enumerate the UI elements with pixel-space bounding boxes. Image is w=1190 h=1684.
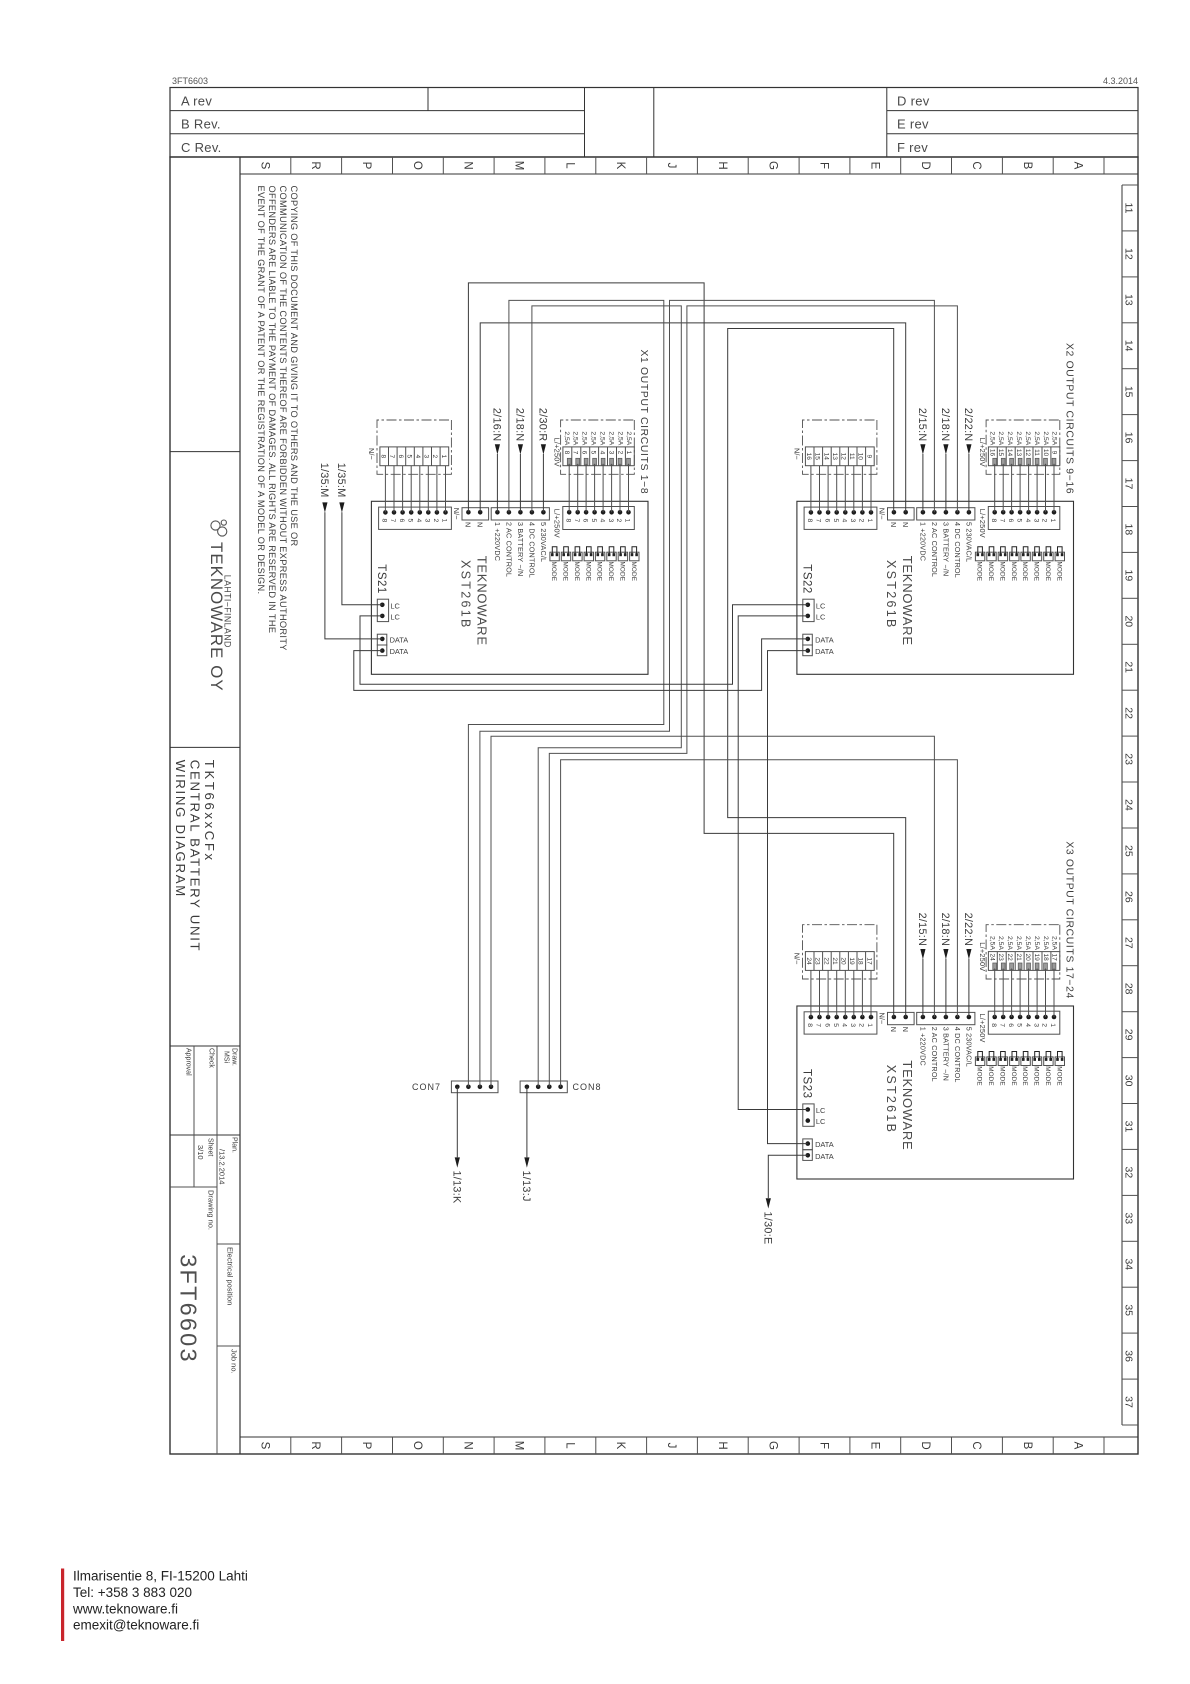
module TS22 fuse terminal strip frame (dash-dot) [986,420,1060,474]
right grid reference band (letters A-S) [240,1436,1138,1438]
svg-text:7: 7 [815,1023,822,1027]
left grid reference band (letters A-S) [240,173,1138,175]
svg-text:2,5A: 2,5A [599,431,606,445]
svg-text:XST261B: XST261B [884,1065,898,1135]
svg-text:3: 3 [424,519,431,523]
svg-text:7: 7 [389,519,396,523]
module TS23 MODE jumper 3 [1032,1057,1041,1066]
svg-text:LC: LC [390,612,400,621]
svg-text:Check: Check [208,1048,215,1068]
svg-text:1/13:K: 1/13:K [450,1171,462,1205]
net arrow 2/18:N to TS21 pin 3 [519,454,521,512]
svg-text:MODE: MODE [987,562,994,582]
wire net DATA chain TS22 to TS23 [768,651,808,1144]
svg-text:MODE: MODE [976,1066,983,1086]
net arrow 1/13:J from CON8 pin1 [526,1087,528,1158]
wire fuse 5 to TS21 output 5 [594,464,596,513]
svg-text:P: P [360,1442,372,1450]
wire connector 6 to TS21 return 6 [402,466,404,513]
svg-text:N/−: N/− [878,1013,887,1025]
module TS21 MODE jumper 2 [618,552,627,561]
svg-text:LC: LC [816,601,826,610]
svg-text:O: O [411,161,423,170]
module TS23 output terminal box L/+250V pins 1-8 [988,1011,1060,1034]
module TS22 return terminal box pins 1-8 [804,507,877,529]
svg-text:2 AC CONTROL: 2 AC CONTROL [504,522,513,577]
svg-text:F: F [818,162,830,169]
teknoware gear logo [211,520,227,536]
svg-text:2: 2 [616,451,623,455]
svg-text:18: 18 [1042,954,1049,962]
svg-text:33: 33 [1123,1212,1135,1224]
svg-text:LC: LC [390,601,400,610]
svg-text:F: F [818,1442,830,1449]
svg-text:N/−: N/− [793,448,802,460]
svg-text:CON7: CON7 [412,1082,441,1092]
connector CON8 [520,1081,567,1093]
module TS23 input terminal box pins 1-5 [917,1012,975,1024]
svg-text:N: N [462,161,474,169]
svg-text:13: 13 [1015,449,1022,457]
wire connector 20 to TS23 return 4 [844,970,846,1017]
svg-text:4: 4 [841,1023,848,1027]
svg-text:2,5A: 2,5A [1006,431,1013,445]
svg-text:26: 26 [1123,891,1135,903]
svg-text:S: S [258,1442,270,1450]
svg-text:4: 4 [415,519,422,523]
svg-text:2,5A: 2,5A [997,431,1004,445]
svg-text:Approval: Approval [185,1048,192,1076]
svg-text:L/+250V: L/+250V [978,438,987,467]
module TS21 MODE jumper 8 [550,552,559,561]
svg-text:G: G [767,161,779,170]
wire fuse 4 to TS21 output 4 [602,464,604,513]
module TS21 fuse 4 2,5A [601,458,605,465]
svg-text:1: 1 [624,519,631,523]
svg-text:3: 3 [423,454,430,458]
svg-text:3/10: 3/10 [196,1145,205,1160]
svg-text:N: N [901,1027,910,1032]
svg-text:CON8: CON8 [573,1082,602,1092]
svg-text:3: 3 [849,519,856,523]
svg-text:LC: LC [816,1117,826,1126]
wire fuse 24 to TS23 output 8 [994,969,996,1018]
wire connector 2 to TS21 return 2 [436,466,438,513]
module TS22 XST261B outline [797,501,1074,674]
module TS21 fuse 6 2,5A [584,458,588,465]
wire connector 12 to TS22 return 4 [844,466,846,513]
svg-text:15: 15 [1123,386,1135,398]
svg-text:4: 4 [1024,1023,1031,1027]
svg-text:1: 1 [441,519,448,523]
net arrow 2/16:N to TS21 pin 1 [496,454,498,512]
svg-text:5: 5 [590,451,597,455]
svg-text:Sheet: Sheet [207,1138,214,1156]
module TS22 fuse 9 2,5A [1052,458,1056,465]
module TS23 return terminal box pins 1-8 [804,1012,877,1034]
net arrow 1/35:M to TS21 LC [342,512,382,605]
svg-text:2: 2 [1041,1023,1048,1027]
wire connector 9 to TS22 return 1 [870,466,872,513]
svg-text:TS21: TS21 [375,564,387,594]
svg-text:2,5A: 2,5A [1015,431,1022,445]
svg-text:CENTRAL BATTERY UNIT: CENTRAL BATTERY UNIT [188,760,203,953]
svg-text:8: 8 [381,519,388,523]
module TS22 MODE jumper 8 [975,552,984,561]
module TS22 MODE jumper 3 [1032,552,1041,561]
svg-text:5 230VAC/L: 5 230VAC/L [964,522,973,562]
module TS21 MODE jumper 4 [595,552,604,561]
module TS23 LC connector [803,1104,814,1126]
svg-text:DATA: DATA [815,1140,834,1149]
svg-text:D rev: D rev [897,94,930,109]
svg-text:15: 15 [814,453,821,461]
svg-text:L/+250V: L/+250V [978,1014,987,1043]
module TS21 return terminal box pins 1-8 [379,507,452,529]
svg-text:emexit@teknoware.fi: emexit@teknoware.fi [73,1618,199,1633]
svg-text:N: N [464,522,473,527]
svg-text:1/13:J: 1/13:J [520,1171,532,1202]
svg-text:H: H [716,1441,728,1449]
svg-text:B: B [1021,162,1033,170]
wire connector 24 to TS23 return 8 [810,970,812,1017]
module TS23 MODE jumper 4 [1021,1057,1030,1066]
module TS23 fuse terminal strip frame (dash-dot) [986,925,1060,979]
svg-text:9: 9 [1051,451,1058,455]
wire fuse 6 to TS21 output 6 [585,464,587,513]
svg-text:K: K [614,162,626,170]
svg-text:O: O [411,1441,423,1450]
svg-text:TEKNOWARE: TEKNOWARE [475,556,490,646]
svg-text:2/22:N: 2/22:N [962,408,974,442]
module TS21 fuse 5 2,5A [593,458,597,465]
module TS22 fuse 16 2,5A [993,458,997,465]
svg-text:MODE: MODE [562,562,569,582]
module TS21 LC connector [377,599,388,621]
module TS21 DATA connector [377,634,387,645]
wire connector 21 to TS23 return 5 [836,970,838,1017]
net arrow 2/30:R to TS21 pin 5 [542,454,544,512]
svg-text:16: 16 [1123,432,1135,444]
svg-text:1: 1 [625,451,632,455]
wire fuse 16 to TS22 output 8 [994,464,996,513]
svg-text:MODE: MODE [550,562,557,582]
svg-text:19: 19 [848,957,855,965]
svg-text:19: 19 [1123,570,1135,582]
wire fuse 22 to TS23 output 6 [1011,969,1013,1018]
module TS23 MODE jumper 8 [975,1057,984,1066]
svg-text:2,5A: 2,5A [572,431,579,445]
svg-text:MODE: MODE [596,562,603,582]
svg-text:1/30:E: 1/30:E [761,1212,773,1245]
svg-text:MODE: MODE [987,1066,994,1086]
svg-text:OFFENDERS ARE LIABLE TO THE PA: OFFENDERS ARE LIABLE TO THE PAYMENT OF D… [267,186,277,634]
svg-text:8: 8 [380,454,387,458]
svg-text:A rev: A rev [181,94,212,109]
module TS23 fuse strip cells [988,952,1059,971]
svg-text:MODE: MODE [1010,562,1017,582]
svg-text:MODE: MODE [1044,562,1051,582]
svg-text:5: 5 [832,1023,839,1027]
svg-text:4: 4 [841,519,848,523]
module TS23 output connector strip frame (dash-dot) [803,925,877,979]
svg-text:C: C [970,161,982,169]
module TS22 fuse 11 2,5A [1035,458,1039,465]
wire connector 8 to TS21 return 8 [384,466,386,513]
svg-text:MODE: MODE [1033,1066,1040,1086]
svg-text:11: 11 [848,453,855,460]
svg-text:R: R [309,161,321,169]
module TS21 output terminal box L/+250V pins 1-8 [563,507,635,530]
module TS22 LC connector [803,599,814,621]
wire connector 18 to TS23 return 2 [861,970,863,1017]
svg-text:www.teknoware.fi: www.teknoware.fi [72,1601,178,1616]
svg-text:N/−: N/− [367,448,376,460]
module TS23 XST261B outline [797,1006,1074,1179]
svg-text:1 +220VDC: 1 +220VDC [918,1027,927,1066]
svg-text:6: 6 [397,454,404,458]
wire fuse 10 to TS22 output 2 [1045,464,1047,513]
wire fuse 13 to TS22 output 5 [1019,464,1021,513]
svg-text:COMMUNICATION OF THE CONTENTS: COMMUNICATION OF THE CONTENTS THEREOF AR… [278,186,288,651]
svg-text:3: 3 [849,1023,856,1027]
svg-text:Job no.: Job no. [230,1349,239,1374]
svg-text:2/15:N: 2/15:N [916,913,928,947]
svg-text:5: 5 [1015,1023,1022,1027]
wire connector 7 to TS21 return 7 [393,466,395,513]
net arrow 2/22:N to TS22 pin 5 [968,454,970,512]
svg-text:22: 22 [1006,954,1013,962]
svg-text:11: 11 [1123,203,1135,214]
wire fuse 19 to TS23 output 3 [1036,969,1038,1018]
net arrow 2/22:N to TS23 pin 5 [968,959,970,1017]
svg-text:17: 17 [1051,954,1058,962]
svg-text:MODE: MODE [999,1066,1006,1086]
svg-text:9: 9 [865,454,872,458]
svg-text:20: 20 [840,957,847,965]
module TS23 MODE jumper 1 [1055,1057,1064,1066]
svg-text:3: 3 [607,519,614,523]
svg-text:5: 5 [590,519,597,523]
svg-text:Plan.: Plan. [231,1137,238,1153]
svg-text:C Rev.: C Rev. [181,140,222,155]
svg-text:5 230VAC/L: 5 230VAC/L [539,522,548,562]
svg-text:MODE: MODE [1010,1066,1017,1086]
wire net N TS21 to TS22 (N2 chain) [480,323,906,512]
svg-text:2: 2 [1041,519,1048,523]
module TS21 fuse 1 2,5A [627,458,631,465]
module TS21 XST261B outline [371,501,648,674]
wire fuse 1 to TS21 output 1 [628,464,630,513]
svg-text:J: J [665,1443,677,1449]
svg-text:MODE: MODE [607,562,614,582]
wire connector 3 to TS21 return 3 [427,466,429,513]
svg-text:2,5A: 2,5A [1024,431,1031,445]
module TS23 fuse 17 2,5A [1052,963,1056,970]
svg-text:2,5A: 2,5A [1051,431,1058,445]
svg-text:3 BATTERY −/N: 3 BATTERY −/N [941,522,950,576]
svg-text:MODE: MODE [1021,562,1028,582]
svg-text:24: 24 [805,957,812,965]
svg-text:31: 31 [1123,1121,1135,1133]
svg-text:2,5A: 2,5A [590,431,597,445]
module TS21 MODE jumper 5 [584,552,593,561]
net arrow 2/18:N to TS22 pin 3 [945,454,947,512]
svg-text:2: 2 [615,519,622,523]
svg-text:16: 16 [805,453,812,461]
module TS21 output connector cells [380,447,449,466]
svg-text:3: 3 [1032,1023,1039,1027]
svg-text:6: 6 [823,519,830,523]
svg-text:22: 22 [1123,707,1135,719]
module TS22 MODE jumper 5 [1010,552,1019,561]
svg-text:TEKNOWARE: TEKNOWARE [900,556,915,646]
svg-text:5 230VAC/L: 5 230VAC/L [964,1027,973,1067]
net arrow 2/15:N to TS22 pin 1 [922,454,924,512]
wire fuse 9 to TS22 output 1 [1053,464,1055,513]
module TS21 fuse 8 2,5A [567,458,571,465]
module TS23 MODE jumper 2 [1044,1057,1053,1066]
module TS21 fuse 7 2,5A [576,458,580,465]
svg-text:MODE: MODE [1021,1066,1028,1086]
wire connector 22 to TS23 return 6 [827,970,829,1017]
module TS22 output connector cells [805,447,874,466]
svg-text:MSi: MSi [223,1051,230,1064]
module TS22 fuse 14 2,5A [1010,458,1014,465]
svg-text:LC: LC [816,612,826,621]
svg-text:DATA: DATA [390,635,409,644]
svg-text:4: 4 [599,451,606,455]
svg-text:3FT6603: 3FT6603 [176,1254,202,1363]
wire fuse 14 to TS22 output 6 [1011,464,1013,513]
svg-text:36: 36 [1123,1350,1135,1362]
svg-text:4: 4 [598,519,605,523]
svg-text:7: 7 [388,454,395,458]
svg-text:C: C [970,1441,982,1449]
wire net AC control TS21 to CON7 pin2 [468,300,663,1086]
wire connector 10 to TS22 return 2 [861,466,863,513]
svg-text:1: 1 [866,1023,873,1027]
svg-text:1/35:M: 1/35:M [335,463,347,498]
svg-text:2,5A: 2,5A [1015,936,1022,950]
svg-text:2,5A: 2,5A [1006,936,1013,950]
svg-text:2: 2 [858,519,865,523]
svg-text:6: 6 [1007,1023,1014,1027]
svg-text:MODE: MODE [1044,1066,1051,1086]
svg-text:8: 8 [990,1023,997,1027]
svg-text:7: 7 [998,519,1005,523]
module TS23 N terminal box [888,1012,915,1024]
svg-text:COPYING OF THIS DOCUMENT AND G: COPYING OF THIS DOCUMENT AND GIVING IT T… [289,186,299,547]
svg-text:35: 35 [1123,1304,1135,1316]
svg-text:DATA: DATA [815,647,834,656]
module TS21 fuse terminal strip frame (dash-dot) [561,420,635,474]
svg-text:H: H [716,161,728,169]
module TS22 fuse strip cells [988,447,1059,466]
svg-text:4 DC CONTROL: 4 DC CONTROL [527,522,536,578]
svg-text:17: 17 [1123,478,1135,490]
svg-text:10: 10 [1042,449,1049,457]
wire net DATA TS23 to 1/30:E [768,1155,808,1198]
svg-text:L/+250V: L/+250V [552,438,561,467]
svg-text:8: 8 [806,519,813,523]
module TS23 fuse 20 2,5A [1027,963,1031,970]
module TS23 fuse 18 2,5A [1044,963,1048,970]
svg-text:L: L [563,1442,575,1449]
svg-text:7: 7 [572,451,579,455]
svg-text:Electrical position: Electrical position [226,1247,235,1305]
svg-text:E: E [868,162,880,170]
svg-text:Ilmarisentie 8, FI-15200 Lahti: Ilmarisentie 8, FI-15200 Lahti [73,1569,248,1584]
wire net N TS21 to TS23 (N1 chain) [468,283,893,1017]
svg-text:27: 27 [1123,937,1135,949]
module TS22 MODE jumper 4 [1021,552,1030,561]
svg-text:2,5A: 2,5A [1042,431,1049,445]
svg-text:4 DC CONTROL: 4 DC CONTROL [953,522,962,578]
svg-text:N/−: N/− [878,508,887,520]
wire net DC control TS21 to CON8 pin2 [532,306,681,1087]
svg-text:1 +220VDC: 1 +220VDC [918,522,927,561]
svg-text:18: 18 [857,957,864,965]
svg-text:34: 34 [1123,1258,1135,1270]
module TS23 fuse 23 2,5A [1001,963,1005,970]
svg-text:L/+250V: L/+250V [978,509,987,538]
svg-text:3: 3 [1032,519,1039,523]
svg-text:6: 6 [398,519,405,523]
svg-text:Tel: +358 3 883 020: Tel: +358 3 883 020 [73,1585,192,1600]
svg-text:21: 21 [1123,661,1135,673]
module TS21 MODE jumper 6 [573,552,582,561]
svg-text:19: 19 [1033,954,1040,962]
svg-text:L/+250V: L/+250V [552,509,561,538]
module TS23 DATA connector [803,1139,813,1150]
wire net DC control TS23 to CON8 pin4 [561,760,958,1087]
wire connector 4 to TS21 return 4 [419,466,421,513]
svg-text:2: 2 [432,519,439,523]
net arrow 2/18:N to TS23 pin 3 [945,959,947,1017]
svg-text:8: 8 [564,519,571,523]
svg-text:XST261B: XST261B [459,560,473,630]
svg-text:6: 6 [1007,519,1014,523]
svg-text:M: M [513,1441,525,1451]
wire connector 16 to TS22 return 8 [810,466,812,513]
module TS21 N terminal box [462,508,489,520]
wire fuse 15 to TS22 output 7 [1002,464,1004,513]
top grid reference band (numbers 11-37) [1121,185,1123,1425]
svg-text:18: 18 [1123,524,1135,536]
module TS22 MODE jumper 7 [987,552,996,561]
svg-text:12: 12 [840,453,847,461]
wire fuse 17 to TS23 output 1 [1053,969,1055,1018]
svg-text:11: 11 [1033,449,1040,456]
svg-text:P: P [360,162,372,170]
svg-text:E: E [868,1442,880,1450]
connector CON7 [451,1081,498,1093]
svg-text:3FT6603: 3FT6603 [172,76,208,86]
wire connector 11 to TS22 return 3 [853,466,855,513]
module TS23 fuse 21 2,5A [1018,963,1022,970]
svg-text:14: 14 [1123,340,1135,352]
svg-text:MODE: MODE [573,562,580,582]
svg-text:37: 37 [1123,1396,1135,1408]
svg-text:7: 7 [998,1023,1005,1027]
svg-text:1: 1 [1049,519,1056,523]
title block strip [239,157,241,1454]
wire connector 19 to TS23 return 3 [853,970,855,1017]
svg-text:14: 14 [822,453,829,461]
module TS21 fuse 2 2,5A [618,458,622,465]
svg-text:J: J [665,163,677,169]
